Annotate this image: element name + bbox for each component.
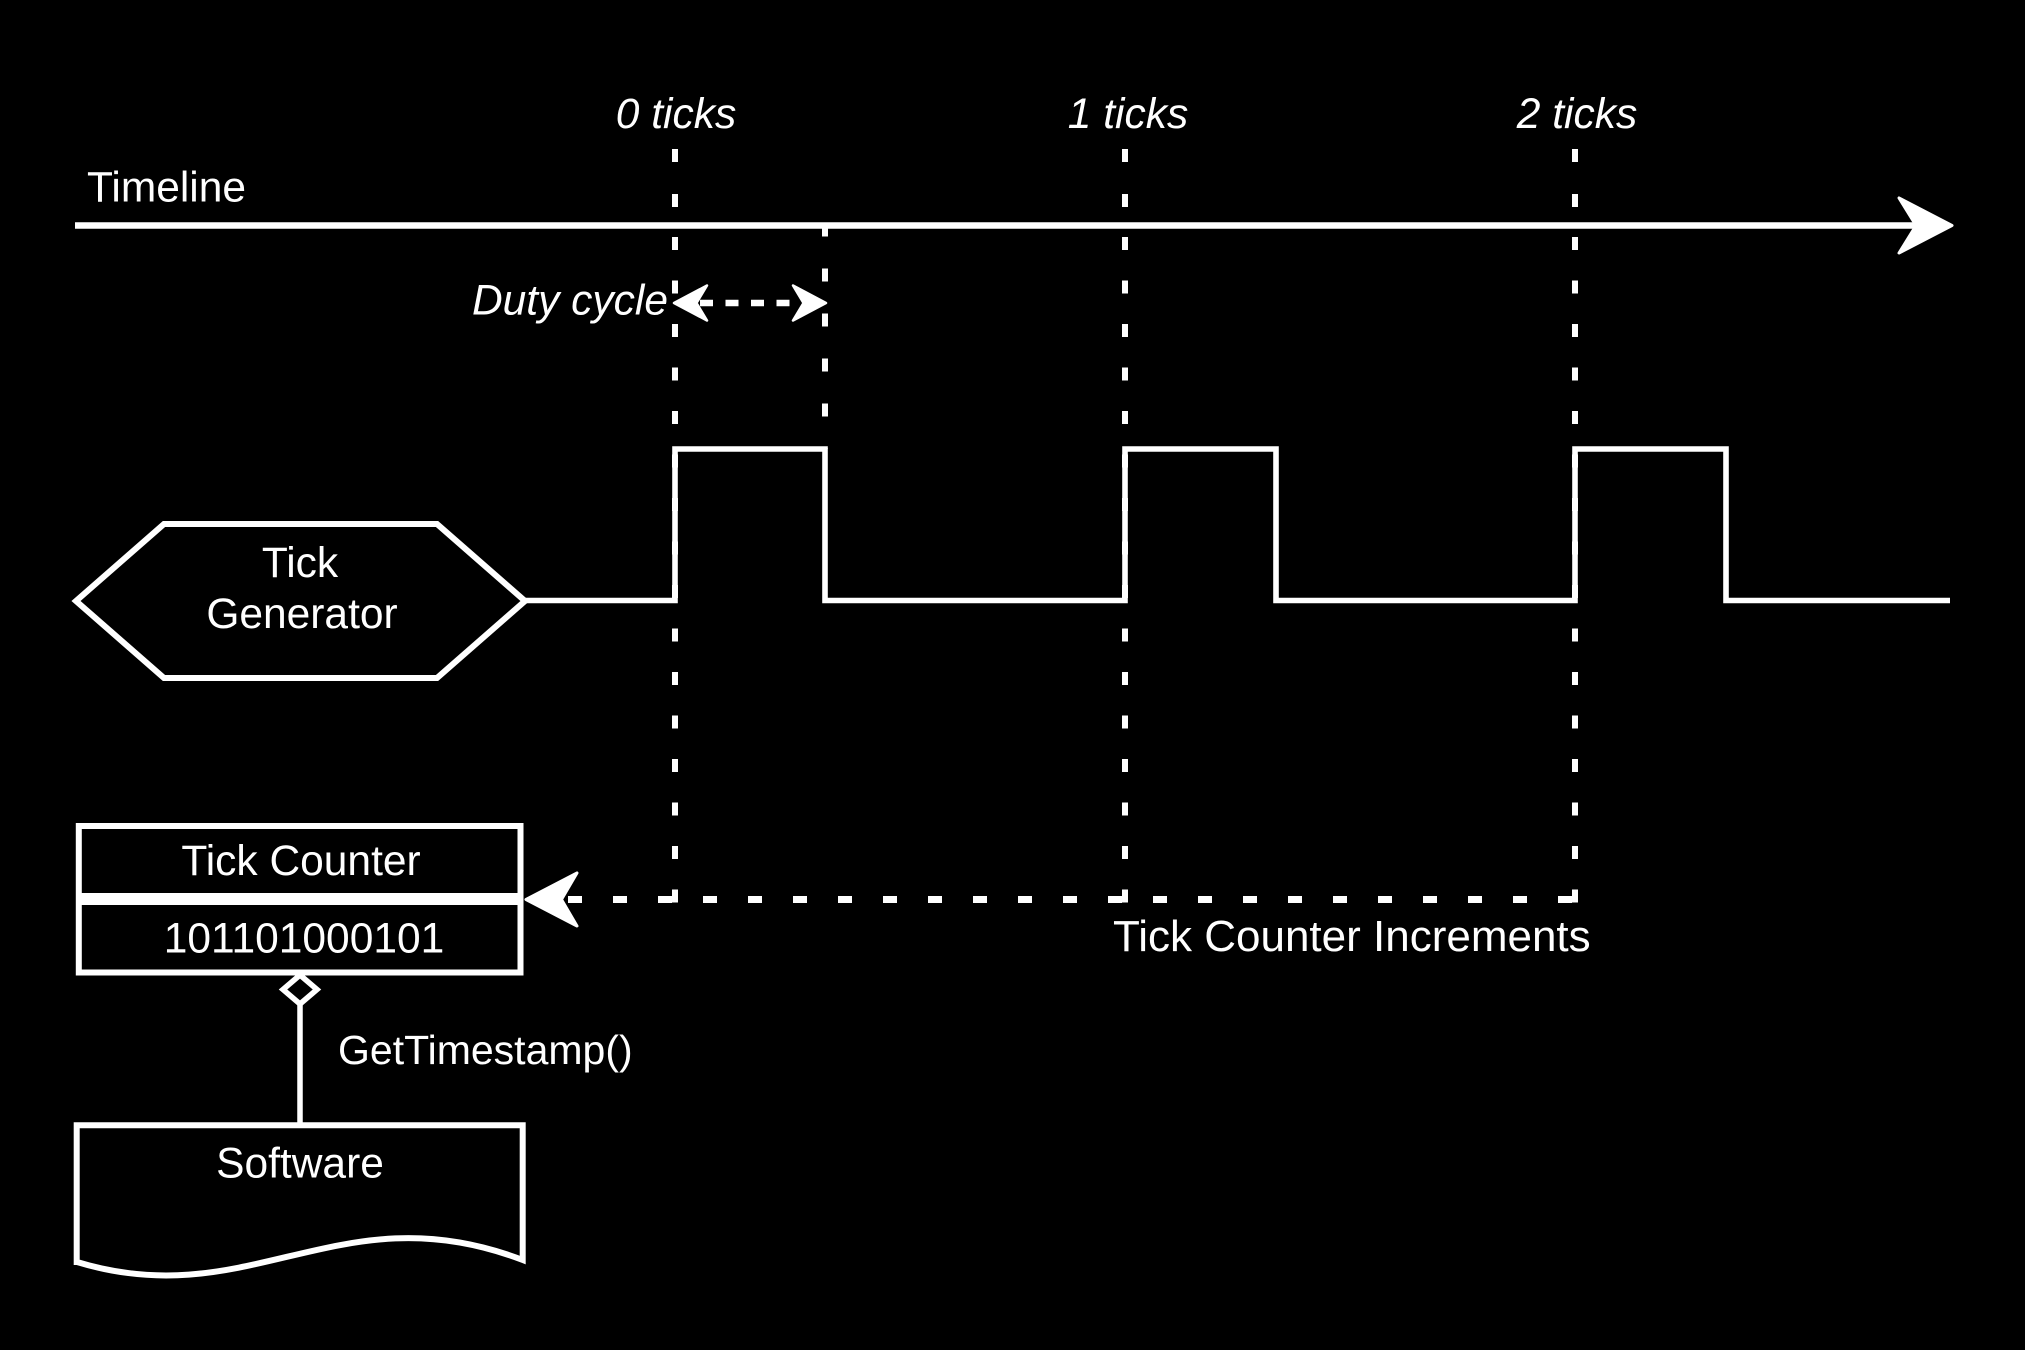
svg-text:2 ticks: 2 ticks <box>1516 91 1637 138</box>
svg-text:0 ticks: 0 ticks <box>616 91 736 138</box>
svg-text:Timeline: Timeline <box>87 165 246 212</box>
svg-text:1 ticks: 1 ticks <box>1068 91 1188 138</box>
svg-text:101101000101: 101101000101 <box>164 916 444 963</box>
svg-text:Tick Counter Increments: Tick Counter Increments <box>1113 912 1591 961</box>
svg-text:Tick Counter: Tick Counter <box>181 838 420 885</box>
svg-text:Generator: Generator <box>206 591 397 638</box>
svg-text:GetTimestamp(): GetTimestamp() <box>338 1027 633 1073</box>
svg-text:Tick: Tick <box>262 540 339 587</box>
svg-text:Duty cycle: Duty cycle <box>472 278 668 325</box>
svg-text:Software: Software <box>216 1141 384 1188</box>
